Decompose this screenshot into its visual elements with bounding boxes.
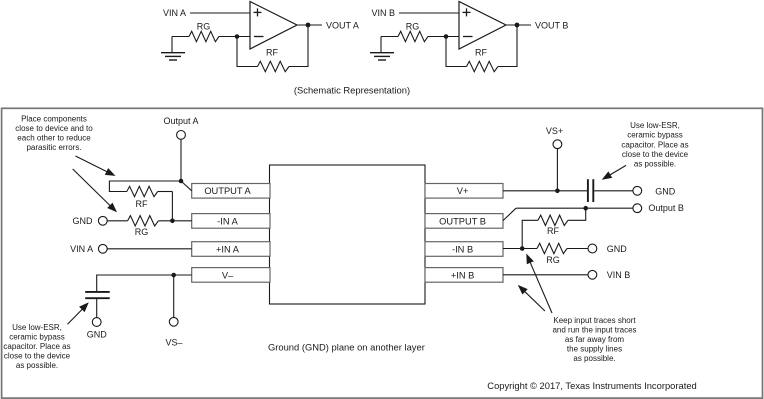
terminal Output A — [163, 116, 198, 139]
node output B — [515, 23, 520, 28]
IC U2 dual op amp — [270, 165, 426, 304]
resistor RG (amp A) — [172, 22, 250, 42]
node Output B net — [583, 206, 588, 211]
terminal GND (RG A) — [73, 216, 108, 226]
op-amp U1B — [459, 2, 506, 50]
pin +IN A — [192, 242, 270, 257]
terminal VS- — [165, 317, 182, 347]
svg-text:ceramic bypass: ceramic bypass — [627, 131, 683, 140]
op-amp U1A — [250, 2, 297, 50]
svg-text:Use low-ESR,: Use low-ESR, — [630, 121, 680, 130]
svg-text:VS–: VS– — [165, 338, 182, 348]
terminal VIN A — [70, 244, 107, 254]
svg-text:Ground (GND) plane on another: Ground (GND) plane on another layer — [268, 342, 425, 353]
pin -IN B — [425, 242, 503, 257]
node output A net — [179, 179, 184, 184]
svg-text:OUTPUT A: OUTPUT A — [204, 186, 251, 196]
svg-text:RF: RF — [136, 199, 148, 209]
svg-text:Place components: Place components — [21, 115, 87, 124]
node -IN A — [170, 219, 175, 224]
terminal VIN B — [588, 270, 630, 280]
pin -IN A — [192, 214, 270, 229]
svg-text:+IN A: +IN A — [216, 244, 240, 254]
annotation use low-esr right — [621, 121, 688, 168]
ground (amp A) — [161, 37, 185, 61]
node V- net — [171, 273, 176, 278]
wire -IN B pin to RG — [503, 248, 537, 250]
arrow to RF wire — [76, 156, 116, 176]
svg-text:RG: RG — [406, 22, 420, 32]
svg-text:RF: RF — [475, 47, 487, 57]
terminal GND (C1) — [87, 318, 108, 340]
svg-text:VIN A: VIN A — [163, 8, 186, 18]
arrow to RG wire — [73, 169, 117, 212]
svg-text:V–: V– — [222, 270, 234, 280]
wire V- node to VS- — [173, 275, 175, 317]
svg-text:capacitor. Place as: capacitor. Place as — [3, 342, 70, 351]
resistor RF (amp A) — [237, 25, 308, 72]
svg-text:RF: RF — [547, 226, 559, 236]
terminal GND (RG B) — [588, 244, 627, 254]
resistor RF (layout B) — [522, 208, 586, 248]
svg-text:Keep input traces short: Keep input traces short — [553, 316, 636, 325]
arrow to C1 — [68, 302, 89, 324]
terminal VS+ — [546, 126, 563, 149]
svg-text:RG: RG — [546, 255, 560, 265]
pin +IN B — [425, 268, 503, 283]
svg-text:RG: RG — [135, 227, 149, 237]
svg-text:as possible.: as possible. — [573, 354, 615, 363]
svg-text:VOUT B: VOUT B — [535, 20, 568, 30]
svg-text:Use low-ESR,: Use low-ESR, — [12, 323, 62, 332]
pin OUTPUT B — [425, 214, 503, 229]
svg-text:the supply lines: the supply lines — [567, 345, 622, 354]
svg-text:-IN A: -IN A — [217, 216, 238, 226]
svg-text:as far away from: as far away from — [565, 335, 624, 344]
node -IN B — [520, 246, 525, 251]
svg-text:as possible.: as possible. — [634, 160, 676, 169]
svg-text:(Schematic Representation): (Schematic Representation) — [294, 84, 410, 95]
svg-text:RF: RF — [266, 47, 278, 57]
resistor RF (layout A) — [127, 186, 173, 209]
svg-text:+IN B: +IN B — [451, 270, 475, 280]
terminal Output B — [633, 203, 684, 213]
node inverting input A — [235, 34, 240, 39]
pin V- — [192, 268, 270, 283]
svg-text:capacitor. Place as: capacitor. Place as — [621, 140, 688, 149]
svg-text:Copyright © 2017, Texas Instru: Copyright © 2017, Texas Instruments Inco… — [487, 380, 696, 391]
wire +IN B pin to VIN B — [503, 274, 588, 276]
annotation keep input traces — [552, 316, 636, 363]
svg-text:VIN B: VIN B — [371, 8, 395, 18]
arrow to +IN B wire — [518, 285, 545, 311]
wire VS+ to V+ net — [556, 149, 558, 191]
wire VIN A to +IN A pin — [107, 248, 192, 250]
svg-text:OUTPUT B: OUTPUT B — [439, 216, 486, 226]
svg-text:GND: GND — [655, 186, 676, 196]
svg-text:VIN A: VIN A — [70, 244, 93, 254]
arrow to C2 — [602, 165, 626, 179]
svg-text:close to the device: close to the device — [4, 352, 71, 361]
ground (amp B) — [370, 37, 394, 61]
resistor RG (layout A) — [107, 216, 192, 238]
svg-text:-IN B: -IN B — [452, 244, 473, 254]
wire V+ pin to capacitor — [503, 190, 588, 192]
svg-text:VS+: VS+ — [546, 126, 563, 136]
net VIN A — [163, 8, 250, 18]
capacitor C1 bypass V- — [85, 292, 110, 318]
terminal GND (C2) — [633, 186, 676, 196]
net VIN B — [371, 8, 459, 18]
svg-text:RG: RG — [197, 22, 211, 32]
pin OUTPUT A — [192, 184, 270, 199]
arrow to -IN B node — [526, 254, 552, 314]
svg-text:GND: GND — [73, 216, 94, 226]
annotation place components — [15, 115, 93, 153]
svg-text:and run the input traces: and run the input traces — [552, 326, 636, 335]
resistor RF (amp B) — [446, 25, 517, 72]
wire output A net to RF — [109, 181, 181, 192]
node V+ net — [555, 189, 560, 194]
wire OUTPUT B pin to Output B terminal — [503, 208, 633, 220]
svg-text:close to device and to: close to device and to — [15, 124, 93, 133]
svg-text:ceramic bypass: ceramic bypass — [9, 333, 65, 342]
svg-text:Output A: Output A — [163, 116, 198, 126]
capacitor C2 bypass V+ — [588, 179, 633, 202]
wire V- pin to capacitor — [97, 275, 192, 291]
svg-text:parasitic errors.: parasitic errors. — [26, 143, 81, 152]
wire Output A terminal to pin — [181, 139, 192, 191]
node inverting input B — [444, 34, 449, 39]
svg-text:GND: GND — [607, 244, 628, 254]
svg-text:close to the device: close to the device — [622, 150, 689, 159]
resistor RG (amp B) — [381, 22, 459, 42]
annotation use low-esr left — [3, 323, 70, 370]
svg-text:V+: V+ — [457, 186, 469, 196]
svg-text:VOUT A: VOUT A — [326, 20, 359, 30]
svg-text:each other to reduce: each other to reduce — [17, 134, 91, 143]
svg-text:as possible.: as possible. — [16, 361, 58, 370]
net VOUT A — [297, 20, 359, 30]
resistor RG (layout B) — [537, 243, 588, 264]
svg-text:VIN B: VIN B — [607, 270, 631, 280]
svg-text:Output B: Output B — [648, 203, 684, 213]
node output A — [306, 23, 311, 28]
wire RF to -IN A node — [171, 192, 173, 221]
svg-text:GND: GND — [87, 330, 108, 340]
net VOUT B — [506, 20, 568, 30]
pin V+ — [425, 184, 503, 199]
